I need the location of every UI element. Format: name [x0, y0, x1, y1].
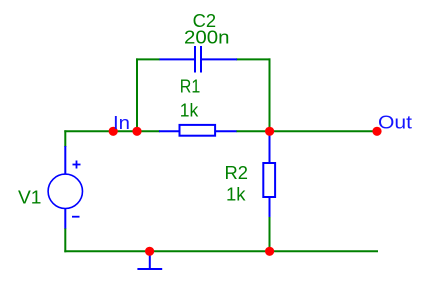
svg-text:R1: R1: [180, 77, 201, 97]
svg-text:200n: 200n: [184, 28, 230, 48]
svg-text:R2: R2: [225, 163, 249, 183]
svg-text:Out: Out: [378, 113, 412, 133]
svg-text:V1: V1: [18, 187, 42, 207]
svg-text:1k: 1k: [226, 185, 247, 205]
svg-text:In: In: [113, 113, 130, 133]
svg-text:1k: 1k: [180, 101, 199, 121]
